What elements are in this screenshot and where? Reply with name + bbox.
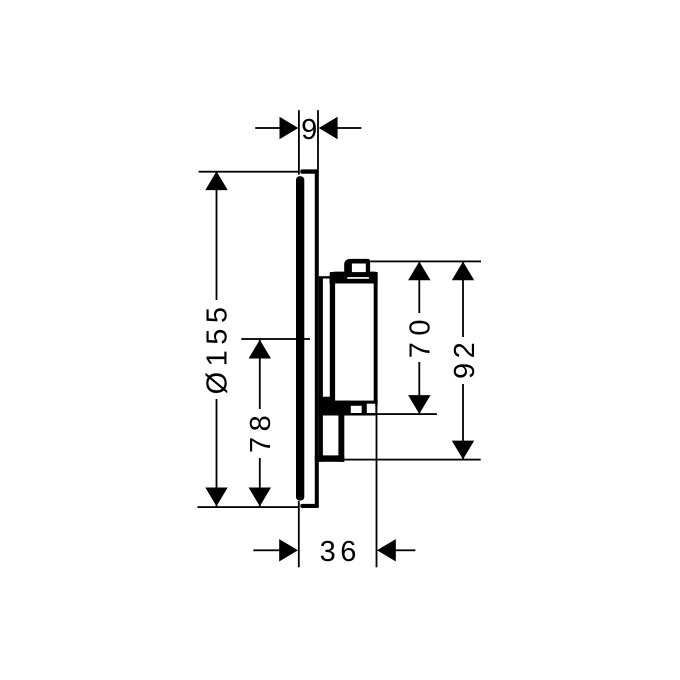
dimension 70/92 top extension line [370,261,481,263]
dimension O155 bottom arrow [205,488,227,507]
svg-text:70: 70 [405,313,437,358]
dimension 92 line lower segment [462,384,464,459]
escutcheon plate front face bar [296,176,304,500]
dimension 70 bottom arrow [408,395,430,414]
valve body right wall [374,272,378,404]
escutcheon plate top edge [300,169,319,173]
dimension O155/78 bottom extension line [198,506,300,508]
dimension 78 bottom arrow [249,488,271,507]
valve body left wall [330,272,335,405]
dimension 36 label [320,536,361,568]
dimension 78 middle extension line [241,338,310,340]
dimension O155 top extension line [199,171,300,173]
dimension 78 line upper segment [259,340,261,409]
bottom port [347,404,376,416]
dimension O155 line upper segment [216,171,218,300]
escutcheon plate back edge [315,169,319,507]
dimension 78 top arrow [249,340,271,359]
valve flange top edge [319,276,330,278]
valve body top cap [330,272,378,284]
svg-text:78: 78 [245,410,277,453]
svg-text:9: 9 [301,114,317,146]
dimension 9 extension line right [317,110,319,169]
dimension 36 extension line right [376,396,378,567]
top knob [344,259,370,275]
svg-text:Ø155: Ø155 [201,301,233,394]
dimension 9 label [301,114,317,146]
svg-text:36: 36 [320,536,361,568]
dimension 9 extension line left [298,110,300,174]
dimension 70 line upper segment [418,261,420,313]
bottom pipe right wall [338,413,344,462]
dimension 70 label [405,313,437,358]
bottom junction neck [319,397,351,416]
dimension 36 right arrow and shaft [377,539,415,561]
dimension 9 left arrow and shaft [255,117,298,139]
bottom pipe bottom edge [315,455,345,461]
escutcheon plate bottom edge [300,504,319,508]
dimension 36 extension line left [298,501,300,567]
dimension 92 bottom arrow [452,441,474,460]
dimension 36 left arrow and shaft [253,539,298,561]
dimension O155 label [201,301,233,394]
dimension 70 bottom extension line [368,413,437,415]
dimension 78 label [245,410,277,453]
dimension O155 top arrow [205,171,227,190]
svg-text:92: 92 [449,338,481,379]
dimension 92 top arrow [452,262,474,281]
dimension 92 bottom extension line [344,459,480,461]
dimension 70 line lower segment [418,362,420,414]
dimension 92 label [449,338,481,379]
valve body bottom cap [330,401,378,406]
valve flange left bar [319,277,323,462]
dimension 78 line lower segment [259,458,261,506]
dimension O155 line lower segment [216,399,218,506]
dimension 9 right arrow and shaft [319,117,362,139]
dimension 70 top arrow [408,262,430,281]
dimension 92 line upper segment [462,261,464,337]
